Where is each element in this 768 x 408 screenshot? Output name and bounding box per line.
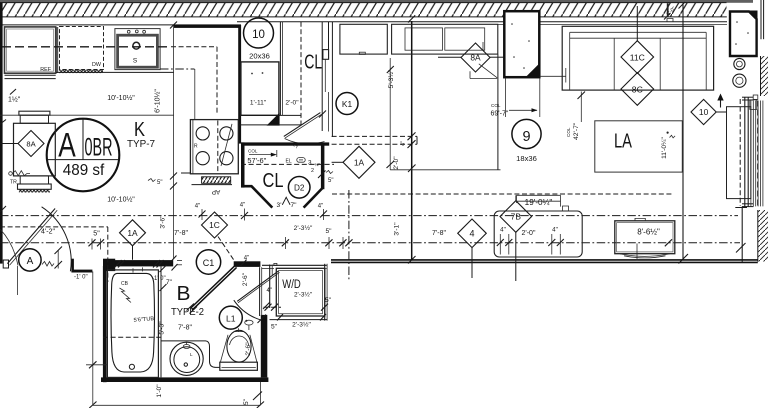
keynote circle C1 <box>196 250 220 274</box>
svg-text:R: R <box>194 144 198 150</box>
washer dryer box <box>276 268 325 316</box>
top border smudge <box>0 0 753 3</box>
balcony sliding door frame <box>739 99 741 206</box>
door header dashed lines <box>332 135 417 137</box>
counter dashed backline <box>2 46 171 48</box>
counter lines below REF <box>5 74 56 76</box>
black corner triangle <box>267 113 280 126</box>
line column to bed <box>540 75 566 77</box>
wall below door <box>741 207 743 262</box>
svg-text:K: K <box>134 118 145 141</box>
closet door jamb pocket <box>328 22 330 59</box>
furniture box 7B <box>494 211 582 257</box>
svg-text:4": 4" <box>267 288 272 294</box>
paper holder symbol <box>245 320 253 325</box>
hatched appliance strip AP <box>202 177 231 184</box>
svg-text:2'-0": 2'-0" <box>285 100 299 107</box>
wall tag diamond 1A (closet) <box>343 146 375 178</box>
svg-text:1'-0": 1'-0" <box>156 384 163 398</box>
svg-text:4": 4" <box>244 256 249 262</box>
hall east wall <box>411 21 413 261</box>
svg-text:5": 5" <box>157 180 162 186</box>
svg-text:4": 4" <box>500 227 506 234</box>
W/D bottom line <box>270 319 328 321</box>
svg-text:2'-0": 2'-0" <box>393 156 400 170</box>
svg-text:3'-6": 3'-6" <box>160 215 167 229</box>
vanity counter <box>161 341 220 368</box>
keynote circle 10 (20x36) <box>244 18 274 48</box>
svg-text:1'-11": 1'-11" <box>250 100 267 107</box>
svg-text:W/D: W/D <box>282 279 301 291</box>
door jamb brackets <box>750 100 757 110</box>
hall centerline dash-dot vertical <box>348 190 350 281</box>
svg-text:L1: L1 <box>226 313 236 323</box>
W/D closet east wall <box>324 264 326 321</box>
pantry east wall <box>321 142 325 189</box>
wall tag diamond 1C <box>202 212 228 238</box>
bathroom NW wall chunk <box>103 259 115 271</box>
svg-text:¼": ¼" <box>315 162 321 167</box>
tub enclosure <box>107 270 158 378</box>
pantry west wall <box>241 142 245 187</box>
header thickness ticks 4" <box>408 132 416 140</box>
svg-text:-2": -2" <box>294 142 300 148</box>
bathroom door swing arc <box>234 300 262 320</box>
kitchen sink S <box>115 29 160 70</box>
W/D closet west jamb <box>269 265 271 309</box>
svg-text:COL: COL <box>566 127 571 137</box>
svg-text:3: 3 <box>308 160 312 167</box>
pantry dashed line <box>241 163 334 165</box>
svg-text:57'-6": 57'-6" <box>247 156 266 165</box>
svg-text:5": 5" <box>325 297 332 304</box>
entry wall step <box>71 259 74 272</box>
svg-text:5": 5" <box>325 228 332 235</box>
left dim extension line <box>92 272 94 406</box>
left wall tick <box>0 206 6 213</box>
window dim ticks 3'-0 <box>664 13 671 20</box>
svg-text:TYP-7: TYP-7 <box>127 139 155 150</box>
counter front edge <box>56 71 174 73</box>
right wall hatch upper <box>761 56 768 96</box>
svg-text:4": 4" <box>195 204 200 210</box>
range front line <box>181 172 190 174</box>
svg-text:5'-3": 5'-3" <box>159 321 166 335</box>
svg-text:69'-7": 69'-7" <box>491 111 509 118</box>
right wall hatch lower <box>758 210 768 262</box>
svg-text:8C: 8C <box>632 84 643 94</box>
wall tag diamond 8A (kitchen) <box>18 131 44 157</box>
svg-text:19'-0¼": 19'-0¼" <box>525 198 553 207</box>
svg-text:2'-0": 2'-0" <box>522 230 536 237</box>
svg-text:8A: 8A <box>26 140 36 149</box>
keynote circle A <box>19 249 41 271</box>
pantry SW chamfer <box>245 186 273 207</box>
wall tag diamond 1A (hall) <box>120 220 146 246</box>
top wall inner face line (kitchen side) <box>0 24 241 26</box>
svg-text:7B: 7B <box>511 212 522 222</box>
svg-text:42'-7": 42'-7" <box>573 122 580 140</box>
shelf bottom lines <box>241 114 301 116</box>
K1 door leaf <box>284 113 321 137</box>
top exterior wall hatched band <box>1 3 727 17</box>
svg-text:4": 4" <box>552 227 558 234</box>
svg-text:8'-6½": 8'-6½" <box>637 228 660 237</box>
svg-text:11'-0¼": 11'-0¼" <box>661 136 668 158</box>
rug/table LA <box>595 121 683 172</box>
secondary arc at left <box>0 229 18 266</box>
top wall inner face line (living side) <box>237 21 727 23</box>
bathroom west wall <box>103 266 107 382</box>
corridor dim line <box>0 242 740 244</box>
corridor dash-dot line <box>0 215 738 217</box>
kitchen east wall top flange <box>174 25 242 28</box>
svg-text:CL: CL <box>304 52 322 74</box>
svg-text:4": 4" <box>401 141 407 146</box>
kitchen east wall <box>238 25 241 144</box>
tub deck line <box>160 267 162 378</box>
svg-text:3': 3' <box>277 202 282 209</box>
break squiggle <box>42 262 54 267</box>
tub drain <box>129 364 134 369</box>
hall south wall chunk <box>234 261 261 267</box>
entry door leaf <box>7 209 55 264</box>
pantry SE chamfer <box>304 188 323 208</box>
svg-text:7": 7" <box>166 279 173 286</box>
pantry door fold mark <box>282 197 290 205</box>
kitchen floor boundary <box>389 58 391 170</box>
hidden line across tub <box>103 336 161 338</box>
corridor south wall long <box>331 259 758 261</box>
svg-text:3'-1": 3'-1" <box>394 222 401 236</box>
svg-text:9: 9 <box>522 129 530 145</box>
svg-text:L: L <box>190 352 193 357</box>
svg-text:5": 5" <box>271 324 278 331</box>
K1 zone east wall <box>331 22 333 137</box>
svg-text:8A: 8A <box>470 53 481 63</box>
wall tag diamond 7B <box>500 201 532 233</box>
console table 8'-6 1/2" <box>615 221 675 254</box>
right dim extension <box>259 382 261 405</box>
svg-text:2: 2 <box>311 168 314 174</box>
1C dashed leader <box>218 237 235 262</box>
svg-text:0BR: 0BR <box>85 134 113 162</box>
svg-text:10'-10½": 10'-10½" <box>107 196 135 204</box>
north arrow small <box>720 98 722 108</box>
keynote circle 9 (18x36) <box>512 119 541 148</box>
pantry north wall <box>241 142 329 145</box>
svg-text:7'-8": 7'-8" <box>174 230 188 237</box>
svg-text:S: S <box>133 58 138 65</box>
lavatory sink <box>170 342 203 375</box>
svg-text:4": 4" <box>318 204 323 210</box>
wall tag diamond 8A (living) <box>461 43 490 72</box>
bathroom east wall <box>261 315 268 378</box>
keynote circle L1 <box>219 306 242 329</box>
svg-text:A: A <box>27 256 34 267</box>
svg-text:A: A <box>58 127 76 165</box>
svg-text:6'-10½": 6'-10½" <box>154 89 162 113</box>
linen shelf box 20x36 <box>241 62 279 115</box>
counter end line <box>194 69 196 120</box>
svg-text:4": 4" <box>240 203 245 209</box>
svg-text:489 sf: 489 sf <box>63 162 105 179</box>
svg-text:5": 5" <box>93 231 100 238</box>
shear wall column (top right) <box>730 12 757 57</box>
bathroom east wall jamb lines <box>259 267 261 316</box>
DW dark front band <box>59 70 103 74</box>
tub inner <box>111 273 155 372</box>
W/D top wall <box>262 264 327 266</box>
dim tick line <box>57 250 59 269</box>
hidden wall dashed <box>107 227 109 282</box>
range R <box>190 120 238 174</box>
dim 6'-10 1/2" vertical <box>173 25 175 259</box>
svg-text:4'-2": 4'-2" <box>41 229 55 236</box>
refrigerator REF <box>5 27 56 73</box>
svg-text:4: 4 <box>469 229 474 239</box>
svg-text:TR: TR <box>10 180 17 186</box>
corridor dashed (entry) <box>0 226 108 228</box>
svg-text:11C: 11C <box>630 52 645 62</box>
svg-text:COL: COL <box>248 149 258 154</box>
entry door swing arc <box>42 207 72 271</box>
11C leader <box>636 6 638 41</box>
closet CL west wall <box>279 22 281 116</box>
outlet circles <box>734 58 745 69</box>
wall tag diamond 4 <box>458 219 487 248</box>
svg-text:D2: D2 <box>294 184 305 193</box>
svg-text:-1' 0": -1' 0" <box>74 275 88 281</box>
svg-text:2'-3½": 2'-3½" <box>292 321 311 329</box>
bottom dim extension line <box>93 404 261 406</box>
shear wall column (mid) <box>504 11 539 77</box>
svg-text:CL: CL <box>263 170 284 192</box>
upper cabinet box B <box>392 24 498 54</box>
bathroom south wall <box>101 377 268 382</box>
svg-text:2'-6": 2'-6" <box>245 342 252 356</box>
svg-text:5": 5" <box>328 178 333 184</box>
svg-text:1C: 1C <box>209 220 220 230</box>
thermostat TR zigzag <box>9 172 13 176</box>
svg-text:10'-10½": 10'-10½" <box>107 94 135 102</box>
bathroom door leaf <box>237 271 279 302</box>
svg-text:7": 7" <box>290 202 297 209</box>
wall tag diamond 10 (right) <box>691 99 716 124</box>
soffit dashed outline <box>171 46 217 48</box>
wall end ticks <box>171 256 177 263</box>
ticks on dim line <box>285 237 287 249</box>
window wall line <box>682 3 684 260</box>
wall tag diamond 8C <box>621 73 654 106</box>
K1 door swing arc <box>285 139 325 144</box>
svg-text:2'-3½": 2'-3½" <box>294 291 312 299</box>
svg-text:REF: REF <box>40 67 51 73</box>
svg-text:DW: DW <box>92 62 102 68</box>
bathroom north wall <box>103 260 173 266</box>
corridor dashed line upper <box>332 193 672 195</box>
keynote circle D2 <box>288 177 310 199</box>
dishwasher DW dashed <box>60 27 104 70</box>
bed <box>562 26 713 90</box>
svg-text:CB: CB <box>121 281 129 287</box>
svg-text:2'-6": 2'-6" <box>242 272 249 286</box>
svg-text:10: 10 <box>699 107 709 117</box>
wall heater assembly <box>14 123 56 176</box>
toilet tank <box>220 362 258 370</box>
unit tag circle A 0BR 489sf <box>47 119 120 192</box>
tick on dim line right <box>665 239 672 246</box>
svg-text:1A: 1A <box>127 228 138 238</box>
toilet top tick <box>234 331 244 333</box>
dim 19'-0 1/4" bracket <box>517 194 561 196</box>
svg-text:K1: K1 <box>342 99 353 109</box>
svg-text:7'-8": 7'-8" <box>432 230 446 237</box>
upper cabinet box A <box>340 24 387 54</box>
svg-text:COL: COL <box>491 103 501 108</box>
svg-text:AP: AP <box>212 188 221 195</box>
svg-text:LA: LA <box>614 130 632 153</box>
closet CL centerline dashed <box>300 22 302 125</box>
svg-text:C1: C1 <box>203 258 215 268</box>
svg-text:1½": 1½" <box>8 96 21 104</box>
range door swing diagonal <box>221 124 232 166</box>
svg-text:5": 5" <box>243 398 250 405</box>
svg-text:1A: 1A <box>354 158 365 168</box>
svg-text:20x36: 20x36 <box>249 52 270 61</box>
svg-text:2'-3½": 2'-3½" <box>294 224 313 232</box>
left exterior wall <box>0 3 3 264</box>
keynote circle K1 <box>336 93 358 115</box>
angled wall <box>190 266 235 309</box>
svg-text:18x36: 18x36 <box>516 154 537 163</box>
wall tag diamond 11C <box>621 41 654 74</box>
svg-text:7'-8": 7'-8" <box>178 325 192 332</box>
svg-text:10: 10 <box>252 29 265 41</box>
toilet bowl <box>227 330 251 362</box>
svg-text:EL: EL <box>286 159 292 165</box>
dim 11'-0 1/4" rotated <box>667 132 669 134</box>
balcony door leaf <box>727 107 751 199</box>
svg-text:B: B <box>177 283 191 305</box>
